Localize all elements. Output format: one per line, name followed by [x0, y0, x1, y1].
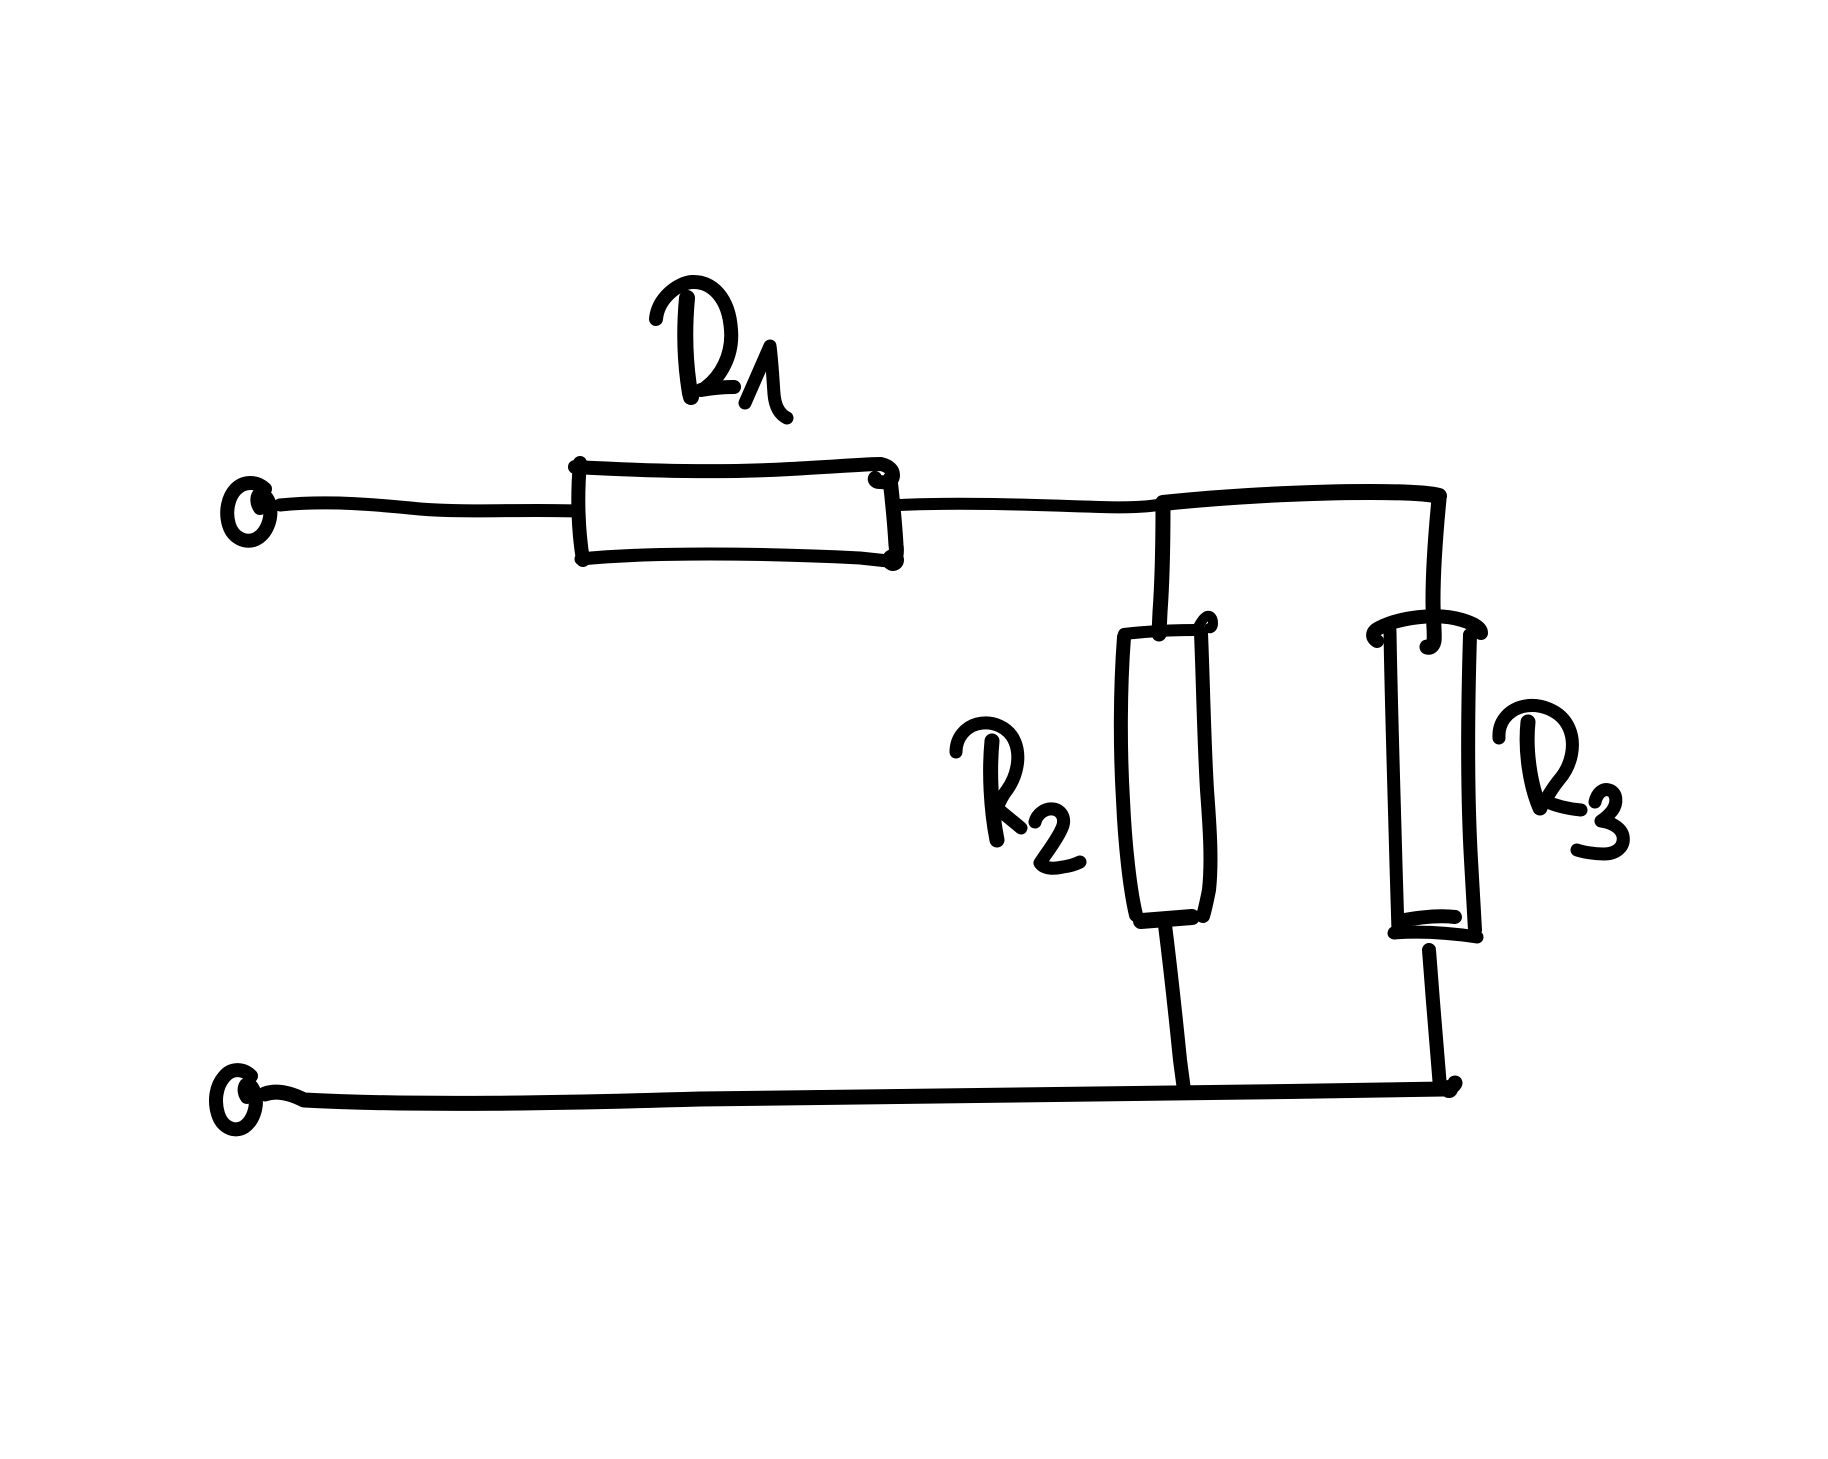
label R1 letter R stem	[685, 298, 691, 397]
wire from R3 bottom to rail	[1429, 950, 1440, 1088]
resistor R3 top edge arc	[1373, 616, 1481, 641]
resistor R2 top edge with curl	[1124, 630, 1196, 634]
label R2 letter R stem	[991, 741, 997, 840]
label R3 letter R stem	[1527, 722, 1540, 808]
resistor R1 body bottom edge	[581, 554, 888, 561]
terminal bottom-left input	[216, 1070, 256, 1129]
wire top-right corner down to R3 with hook	[1427, 499, 1439, 647]
label R2 letter R	[956, 723, 1018, 808]
label R3 letter R leg	[1545, 801, 1581, 810]
label R3 subscript 3	[1577, 790, 1623, 854]
resistor R2 bottom edge	[1141, 917, 1192, 921]
terminal top-left input	[227, 483, 270, 541]
wire from R2 bottom to rail	[1165, 925, 1184, 1090]
resistor R1 bottom-right blob	[882, 549, 904, 571]
resistor R3 right edge	[1468, 635, 1475, 930]
resistor R1 body top edge with hook	[575, 464, 893, 482]
resistor R3 bottom edge strokes	[1399, 916, 1455, 921]
resistor R2 left edge	[1121, 637, 1136, 915]
wire top lead from input to R1	[280, 503, 577, 511]
label R2 subscript 2	[1035, 809, 1080, 868]
resistor R2 top-right pen curl	[1197, 616, 1213, 629]
wire junction vertical drop to R2	[1159, 505, 1163, 634]
resistor R3 left edge	[1390, 631, 1398, 931]
resistor R2 right edge	[1201, 633, 1210, 916]
label R1 letter R	[656, 282, 731, 389]
label R3 letter R	[1499, 706, 1572, 801]
label R1 subscript 1	[745, 346, 787, 418]
label R1 letter R leg	[701, 387, 734, 390]
bottom rail end dot	[1440, 1080, 1458, 1098]
wire from junction to top-right corner	[1163, 492, 1439, 503]
label R2 letter R leg	[997, 808, 1021, 828]
bottom rail wire	[265, 1083, 1455, 1103]
resistor R1 body left edge	[578, 463, 583, 560]
wire from R1 to junction node	[899, 504, 1163, 508]
resistor R1 body right edge	[890, 479, 896, 560]
